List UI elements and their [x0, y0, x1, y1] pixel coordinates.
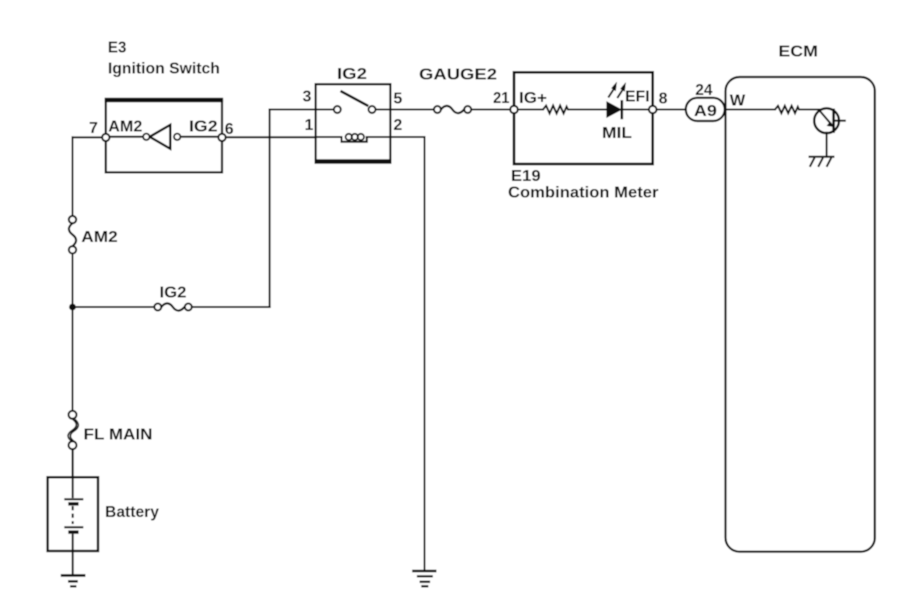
svg-text:1: 1 — [305, 117, 314, 134]
svg-text:IG2: IG2 — [337, 66, 367, 83]
svg-text:FL MAIN: FL MAIN — [84, 427, 153, 444]
svg-text:ECM: ECM — [778, 44, 818, 61]
svg-text:A9: A9 — [694, 103, 717, 120]
svg-text:5: 5 — [393, 91, 402, 108]
svg-text:E3: E3 — [108, 40, 127, 57]
svg-text:24: 24 — [695, 82, 712, 99]
svg-text:2: 2 — [393, 117, 402, 134]
svg-text:3: 3 — [303, 89, 312, 106]
svg-text:Ignition Switch: Ignition Switch — [108, 61, 220, 78]
svg-text:GAUGE2: GAUGE2 — [419, 67, 497, 84]
svg-text:8: 8 — [659, 91, 668, 108]
svg-text:AM2: AM2 — [108, 119, 142, 136]
svg-text:7: 7 — [89, 120, 98, 137]
svg-text:6: 6 — [225, 121, 234, 138]
svg-text:W: W — [730, 93, 746, 110]
svg-text:IG+: IG+ — [519, 90, 547, 107]
svg-text:21: 21 — [493, 90, 510, 107]
svg-text:Battery: Battery — [105, 504, 159, 521]
svg-text:IG2: IG2 — [189, 119, 218, 136]
svg-text:Combination Meter: Combination Meter — [508, 184, 659, 201]
svg-text:IG2: IG2 — [160, 284, 187, 301]
svg-text:EFI: EFI — [625, 89, 650, 106]
svg-text:MIL: MIL — [602, 125, 632, 142]
svg-text:AM2: AM2 — [81, 229, 118, 246]
svg-text:E19: E19 — [511, 168, 541, 185]
